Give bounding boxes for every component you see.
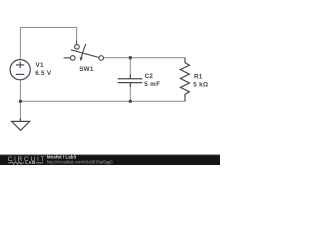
- logo right dash: [36, 162, 43, 164]
- switch blade: [71, 50, 99, 58]
- svg-text:LAB: LAB: [25, 160, 36, 165]
- switch SW1: [64, 44, 104, 61]
- svg-text:5 kΩ: 5 kΩ: [193, 81, 208, 88]
- svg-text:6.5 V: 6.5 V: [35, 70, 52, 77]
- wire C2 bottom: [129, 87, 131, 101]
- watermark bar: [0, 155, 220, 165]
- svg-text:V1: V1: [36, 62, 44, 69]
- svg-text:SW1: SW1: [79, 66, 94, 73]
- node dot V1-ground junction: [19, 100, 22, 103]
- capacitor C2: [118, 74, 143, 87]
- switch arrowhead: [80, 57, 83, 61]
- wire bottom rail: [20, 100, 185, 102]
- wire ground stem: [19, 101, 21, 118]
- wire top rail: [20, 26, 77, 28]
- svg-text:http://circuitlab.com/c6c9576a: http://circuitlab.com/c6c9576at5qg6: [47, 159, 114, 164]
- logo resistor zigzag: [8, 162, 24, 164]
- wire switch drop lower part: [76, 41, 78, 45]
- wire V1 top lead: [19, 27, 21, 59]
- wire right rail: [103, 57, 185, 60]
- resistor R1: [180, 58, 189, 101]
- switch arrow: [81, 44, 85, 57]
- wire switch drop: [76, 27, 78, 41]
- switch right terminal: [99, 56, 104, 61]
- wire V1 bottom: [19, 80, 21, 102]
- node dot C2 top junction: [129, 56, 132, 59]
- switch left stub: [64, 57, 71, 59]
- svg-text:5 mF: 5 mF: [144, 81, 160, 88]
- ground: [12, 118, 30, 130]
- switch left terminal: [70, 56, 75, 61]
- wire C2 top: [129, 58, 131, 74]
- node dot C2 bottom junction: [129, 100, 132, 103]
- svg-text:C2: C2: [145, 73, 154, 80]
- switch top terminal: [75, 45, 80, 50]
- voltage source V1: [10, 60, 30, 80]
- svg-text:R1: R1: [194, 73, 203, 80]
